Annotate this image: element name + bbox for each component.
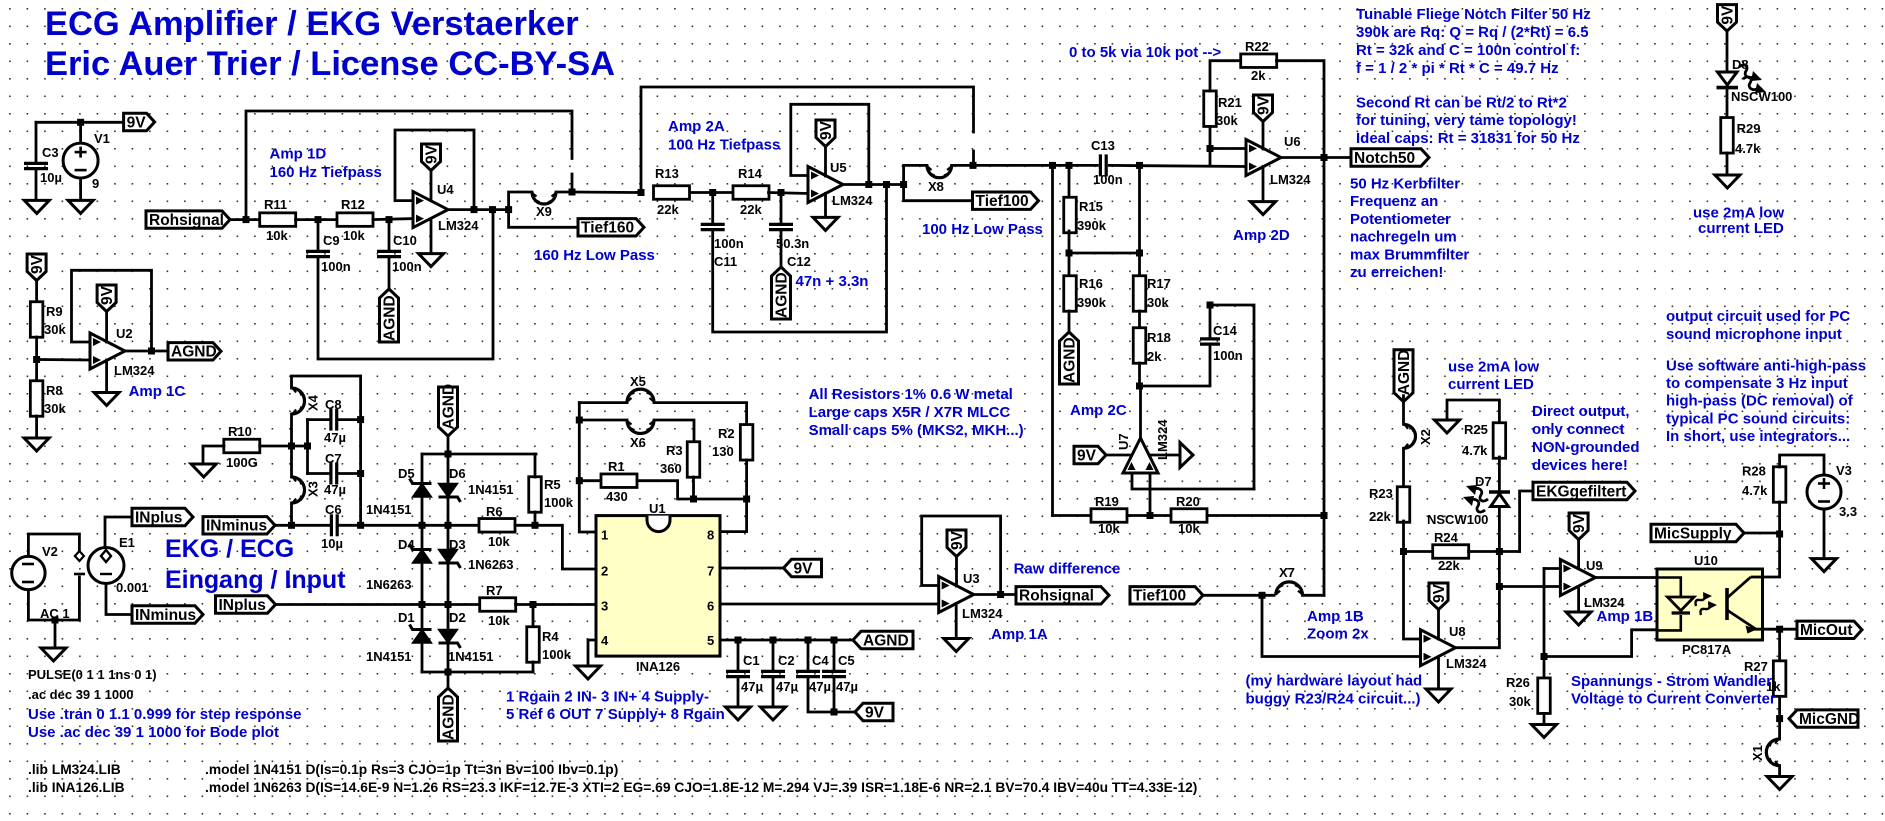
- wire C12 to AGND: [780, 230, 783, 267]
- diode D3 1N6263: [439, 550, 458, 564]
- wire 9V to U6: [1262, 122, 1265, 150]
- svg-text:50 Hz Kerbfilter: 50 Hz Kerbfilter: [1350, 176, 1460, 193]
- svg-text:AGND: AGND: [1061, 337, 1078, 383]
- svg-text:INminus: INminus: [135, 607, 196, 624]
- junction U4 feedback: [471, 206, 478, 213]
- svg-text:Spannungs - Strom Wandler: Spannungs - Strom Wandler: [1571, 673, 1772, 690]
- svg-text:Eric Auer Trier / License CC-B: Eric Auer Trier / License CC-BY-SA: [45, 45, 615, 83]
- svg-text:9V: 9V: [865, 704, 885, 721]
- svg-text:.lib LM324.LIB: .lib LM324.LIB: [28, 762, 121, 777]
- resistor R2: [740, 425, 753, 461]
- svg-text:100n: 100n: [392, 259, 422, 274]
- svg-text:10k: 10k: [1098, 521, 1120, 536]
- wire C8 row right: [339, 418, 361, 421]
- junction C12 top: [778, 189, 785, 196]
- wire V1 top stub: [79, 122, 82, 144]
- svg-text:30k: 30k: [44, 322, 66, 337]
- connector X1: [1766, 739, 1779, 766]
- node INplus row tag: [216, 596, 276, 613]
- junction pin1 rail X6: [576, 417, 583, 424]
- wire C7 row left: [308, 472, 330, 475]
- E1 control plus mark: [75, 551, 84, 561]
- wire U6 ground stub: [1262, 167, 1265, 202]
- wire U4 feedback box: [395, 130, 474, 210]
- svg-text:R6: R6: [486, 504, 503, 519]
- svg-text:R4: R4: [542, 629, 559, 644]
- svg-text:9V: 9V: [127, 114, 147, 131]
- resistor R26: [1538, 678, 1551, 714]
- wire C11 top: [711, 193, 714, 225]
- wire E1 control minus to rail: [28, 577, 79, 620]
- resistor R12: [337, 213, 373, 227]
- junction INminus right rail: [357, 522, 364, 529]
- wire pin7 to 9V: [720, 567, 792, 570]
- svg-text:Voltage to Current Converter: Voltage to Current Converter: [1571, 691, 1776, 708]
- ground U8: [1426, 689, 1451, 702]
- wire pin8: [720, 499, 747, 532]
- svg-text:Amp 1C: Amp 1C: [129, 383, 186, 400]
- junction U6 minus node: [1207, 145, 1214, 152]
- svg-text:AGND: AGND: [1396, 350, 1413, 396]
- svg-text:1N4151: 1N4151: [448, 649, 494, 664]
- wire R1 to bottom node: [637, 481, 747, 499]
- svg-text:2k: 2k: [1147, 349, 1162, 364]
- svg-text:R7: R7: [486, 583, 503, 598]
- junction C4: [805, 637, 812, 644]
- wire U4 ground stub: [430, 219, 433, 254]
- svg-text:Ideal caps: Rt = 31831 for 50: Ideal caps: Rt = 31831 for 50 Hz: [1356, 130, 1580, 147]
- node 9V tag above U5: [816, 120, 835, 147]
- junction U5 feedback: [865, 181, 872, 188]
- wire notch left rail: [1051, 165, 1054, 515]
- node 9V tag below caps: [855, 703, 893, 720]
- resistor R3: [687, 442, 700, 478]
- junction left col INminus: [419, 522, 426, 529]
- svg-text:1: 1: [601, 528, 608, 543]
- diode D6 1N4151: [439, 484, 458, 498]
- svg-text:Rohsignal: Rohsignal: [1019, 588, 1094, 605]
- svg-text:R5: R5: [544, 477, 561, 492]
- resistor R22: [1241, 54, 1277, 67]
- svg-text:high-pass (DC removal) of: high-pass (DC removal) of: [1666, 393, 1854, 410]
- svg-text:10k: 10k: [343, 228, 365, 243]
- svg-text:PULSE(0 1 1 1ns 0 1): PULSE(0 1 1 1ns 0 1): [28, 667, 157, 682]
- svg-text:LM324: LM324: [1155, 419, 1170, 460]
- junction R11 input: [243, 216, 250, 223]
- svg-text:V3: V3: [1836, 463, 1852, 478]
- svg-text:Tunable Fliege Notch Filter 50: Tunable Fliege Notch Filter 50 Hz: [1356, 6, 1591, 23]
- wire X4 rail top: [292, 376, 361, 388]
- svg-text:2: 2: [601, 564, 608, 579]
- wire U5 ground stub: [824, 194, 827, 218]
- resistor R16: [1064, 276, 1077, 312]
- wire R19-R20: [1127, 514, 1171, 517]
- svg-text:EKGgefiltert: EKGgefiltert: [1536, 483, 1626, 500]
- ground C2: [761, 707, 786, 720]
- junction C2: [770, 637, 777, 644]
- junction R17 top: [1136, 162, 1143, 169]
- wire INminus to X3 rail: [276, 524, 330, 527]
- connector X8: [927, 165, 952, 177]
- wire U2 output: [124, 350, 169, 353]
- wire 9V to R9: [35, 281, 38, 303]
- junction U7 plus row: [1147, 512, 1154, 519]
- ground U2: [94, 393, 119, 406]
- svg-text:9V: 9V: [1719, 5, 1736, 25]
- wire R6 to pin2 jog: [515, 525, 596, 569]
- resistor R17: [1133, 276, 1146, 312]
- wire C14 top: [1209, 305, 1212, 338]
- wire R12 to U4 plus input: [373, 219, 413, 220]
- ground U4: [419, 254, 444, 267]
- svg-text:only connect: only connect: [1532, 421, 1625, 438]
- svg-text:All Resistors 1% 0.6 W metal: All Resistors 1% 0.6 W metal: [809, 386, 1013, 403]
- connector X3: [292, 477, 305, 503]
- node INminus tag from E1: [132, 606, 203, 623]
- svg-text:In short, use integrators...: In short, use integrators...: [1666, 428, 1850, 445]
- svg-text:INA126: INA126: [636, 659, 680, 674]
- svg-text:V2: V2: [42, 544, 58, 559]
- junction C10 top: [386, 216, 393, 223]
- wire U2 feedback box: [72, 270, 152, 351]
- node 9V tag top left: [27, 254, 46, 281]
- wire C5 top: [833, 640, 836, 671]
- node Rohsignal output tag: [1016, 587, 1109, 604]
- connector X6: [627, 420, 654, 434]
- node 9V tag above U3: [947, 530, 966, 557]
- svg-text:AGND: AGND: [440, 694, 457, 740]
- svg-text:R12: R12: [341, 197, 365, 212]
- svg-text:R24: R24: [1434, 530, 1459, 545]
- wire R23 to R24 node: [1402, 521, 1405, 552]
- svg-text:R29: R29: [1737, 121, 1761, 136]
- wire C1 bottom: [737, 677, 740, 707]
- wire R26 top: [1543, 657, 1546, 679]
- svg-text:zu erreichen!: zu erreichen!: [1350, 264, 1443, 281]
- wire C2 bottom: [772, 677, 775, 707]
- junction R7-R4: [530, 601, 537, 608]
- svg-text:.ac dec 39 1 1000: .ac dec 39 1 1000: [28, 687, 134, 702]
- junction C5: [831, 637, 838, 644]
- ground R25 bracket: [1435, 420, 1460, 433]
- wire X9 right: [556, 191, 572, 194]
- wire R17 rail: [1138, 165, 1141, 275]
- wire D1 to bottom rail: [421, 643, 424, 672]
- svg-text:390k: 390k: [1077, 295, 1107, 310]
- wire R15 bottom to row: [1068, 231, 1071, 276]
- svg-text:X1: X1: [1750, 745, 1765, 761]
- junction R16 top: [1066, 250, 1073, 257]
- junction R9-R8 divider: [33, 356, 40, 363]
- svg-text:100n: 100n: [1093, 172, 1123, 187]
- junction U2 output: [148, 348, 155, 355]
- wire X9 bump left: [509, 192, 532, 210]
- svg-text:22k: 22k: [740, 202, 762, 217]
- svg-text:D8: D8: [1732, 57, 1749, 72]
- node Tief100 input tag: [1130, 587, 1203, 604]
- wire X8 open stub: [972, 151, 975, 165]
- resistor R18: [1133, 328, 1146, 364]
- node AGND tag below C12: [772, 267, 791, 319]
- svg-text:D4: D4: [398, 537, 415, 552]
- wire R22 loop right: [1277, 61, 1325, 158]
- svg-text:5 Ref 6 OUT 7 Supply+ 8 Rgain: 5 Ref 6 OUT 7 Supply+ 8 Rgain: [506, 706, 725, 723]
- wire C6 to diodes: [339, 524, 422, 527]
- svg-text:1N6263: 1N6263: [468, 557, 514, 572]
- svg-text:8: 8: [707, 528, 714, 543]
- svg-text:C1: C1: [743, 653, 760, 668]
- svg-text:R10: R10: [228, 424, 252, 439]
- svg-text:Small caps 5% (MKS2, MKH...): Small caps 5% (MKS2, MKH...): [809, 422, 1024, 439]
- wire C7 row right: [339, 472, 361, 475]
- wire R13-R14: [690, 191, 733, 194]
- wire D4 to INplus row: [421, 563, 424, 605]
- wire Tief100 drop: [904, 185, 973, 201]
- svg-text:0.001: 0.001: [116, 580, 149, 595]
- svg-text:47µ: 47µ: [836, 679, 858, 694]
- source E1: [88, 548, 124, 584]
- junction C1: [735, 637, 742, 644]
- svg-text:390k are Rq: Q = Rq / (2*Rt) =: 390k are Rq: Q = Rq / (2*Rt) = 6.5: [1356, 24, 1589, 41]
- ground V3: [1812, 559, 1837, 572]
- svg-text:7: 7: [707, 564, 714, 579]
- resistor R25: [1493, 423, 1506, 459]
- svg-text:AGND: AGND: [381, 295, 398, 341]
- svg-text:R15: R15: [1079, 199, 1103, 214]
- svg-text:47µ: 47µ: [324, 482, 346, 497]
- ground U6: [1251, 202, 1276, 215]
- resistor R4: [527, 627, 540, 663]
- wire ground stub V2: [54, 620, 57, 648]
- svg-text:ECG Amplifier / EKG Verstaerke: ECG Amplifier / EKG Verstaerker: [45, 5, 579, 43]
- svg-text:X9: X9: [536, 204, 552, 219]
- svg-text:C5: C5: [838, 653, 855, 668]
- svg-text:Use .tran 0 1.1 0.999 for step: Use .tran 0 1.1 0.999 for step response: [28, 706, 301, 723]
- svg-text:current LED: current LED: [1448, 376, 1534, 393]
- svg-text:R18: R18: [1147, 330, 1171, 345]
- connector X7: [1276, 582, 1303, 595]
- svg-text:100k: 100k: [542, 647, 572, 662]
- wire right rail X4 area: [359, 376, 362, 525]
- svg-text:22k: 22k: [1369, 509, 1391, 524]
- svg-text:Eingang / Input: Eingang / Input: [165, 566, 346, 594]
- wire C8-C7 left rail: [306, 420, 309, 474]
- wire U8 output up: [1456, 587, 1499, 648]
- wire R15 top: [1068, 165, 1071, 197]
- svg-text:D5: D5: [398, 466, 415, 481]
- svg-text:9V: 9V: [1077, 447, 1097, 464]
- wire U7 plus stub: [1149, 473, 1152, 516]
- svg-text:NSCW100: NSCW100: [1731, 89, 1792, 104]
- ground D8 chain: [1715, 175, 1740, 188]
- U10 internal LED: [1657, 578, 1681, 631]
- wire to U9 plus: [1499, 585, 1560, 588]
- capacitor C8: [331, 409, 337, 431]
- wire U10 collector to rail: [1763, 535, 1780, 577]
- wire C3 top: [35, 122, 38, 163]
- svg-text:R26: R26: [1506, 675, 1530, 690]
- svg-text:.model 1N4151 D(Is=0.1p Rs=3: .model 1N4151 D(Is=0.1p Rs=3 CJO=1p Tt=3…: [205, 762, 618, 777]
- junction V2 ground: [52, 617, 59, 624]
- diode D8 LED NSCW100: [1718, 72, 1738, 85]
- svg-text:NON-grounded: NON-grounded: [1532, 439, 1639, 456]
- junction R23-R24: [1400, 548, 1407, 555]
- svg-text:current LED: current LED: [1698, 220, 1784, 237]
- svg-text:Frequenz an: Frequenz an: [1350, 193, 1438, 210]
- wire C14 bottom loop: [1140, 346, 1211, 386]
- junction C9 top: [315, 216, 322, 223]
- svg-text:4.7k: 4.7k: [1735, 141, 1761, 156]
- wire C13 right: [1109, 165, 1246, 166]
- wire C9 top: [317, 220, 320, 251]
- resistor R9: [30, 302, 42, 338]
- svg-text:C10: C10: [393, 233, 417, 248]
- junction U8 out-U9 plus: [1496, 583, 1503, 590]
- wire R28 bottom: [1778, 502, 1781, 535]
- wire R22 loop left: [1210, 61, 1241, 91]
- wire AGND to X2: [1402, 396, 1405, 425]
- wire D6 to INminus row: [447, 497, 450, 525]
- svg-text:U10: U10: [1694, 553, 1718, 568]
- svg-text:0 to 5k via 10k pot -->: 0 to 5k via 10k pot -->: [1069, 44, 1221, 61]
- junction MicOut: [1776, 626, 1783, 633]
- wire 9V to U9: [1577, 540, 1580, 569]
- wire U5 output: [843, 183, 904, 186]
- svg-text:R2: R2: [718, 426, 735, 441]
- junction U6 output: [1321, 154, 1328, 161]
- voltage source V1: [63, 143, 98, 178]
- svg-text:R22: R22: [1245, 39, 1269, 54]
- wire C4 bottom to 9V row: [808, 677, 863, 712]
- junction U3 output: [997, 591, 1004, 598]
- svg-text:typical PC sound circuits:: typical PC sound circuits:: [1666, 410, 1850, 427]
- wire R19 R20 row: [1053, 514, 1092, 517]
- svg-text:10k: 10k: [488, 613, 510, 628]
- junction C7 right: [357, 470, 364, 477]
- node EKGgefiltert tag: [1533, 482, 1635, 499]
- svg-text:devices here!: devices here!: [1532, 457, 1628, 474]
- wire R27 bottom: [1778, 697, 1781, 739]
- wire E1 plus to INplus: [105, 517, 132, 548]
- wire X4-X3 rail: [290, 414, 293, 477]
- svg-text:X8: X8: [928, 179, 944, 194]
- op-amp U5: [808, 167, 843, 203]
- node 9V tag above U9: [1569, 513, 1588, 540]
- wire X6 row left: [579, 419, 627, 422]
- wire R26 bottom: [1543, 714, 1546, 725]
- resistor R23: [1397, 487, 1410, 523]
- resistor R19: [1091, 509, 1127, 523]
- wire U8 minus: [1404, 552, 1421, 640]
- svg-text:C3: C3: [42, 145, 59, 160]
- svg-text:1N6263: 1N6263: [366, 577, 412, 592]
- node Tief100 output tag: [973, 192, 1039, 209]
- wire C14 to right rail: [1210, 305, 1254, 489]
- wire R8 to ground: [35, 416, 38, 438]
- wire main row to C13: [1053, 164, 1098, 167]
- svg-text:Amp 2C: Amp 2C: [1070, 402, 1127, 419]
- wire R24 right: [1469, 550, 1500, 553]
- resistor R10: [224, 439, 260, 453]
- wire U7 output: [1139, 386, 1142, 438]
- svg-text:Amp 1D: Amp 1D: [270, 146, 327, 163]
- wire R9 to R8: [35, 337, 38, 381]
- svg-text:30k: 30k: [44, 401, 66, 416]
- wire V2 plus to E1 control: [28, 534, 79, 557]
- svg-text:100G: 100G: [226, 455, 258, 470]
- svg-text:47µ: 47µ: [324, 430, 346, 445]
- svg-text:C9: C9: [323, 233, 340, 248]
- svg-text:MicOut: MicOut: [1800, 622, 1853, 639]
- wire D7 to node: [1498, 507, 1501, 552]
- svg-text:3: 3: [601, 599, 608, 614]
- svg-text:U9: U9: [1586, 558, 1603, 573]
- wire 9V to U3: [955, 557, 958, 587]
- svg-text:Tief160: Tief160: [581, 220, 634, 237]
- junction X9 feedback node: [569, 189, 576, 196]
- wire V3 bottom: [1823, 509, 1826, 559]
- svg-text:R9: R9: [46, 304, 63, 319]
- svg-text:1N4151: 1N4151: [468, 482, 514, 497]
- svg-text:360: 360: [660, 461, 682, 476]
- svg-text:R27: R27: [1744, 659, 1768, 674]
- wire U2 ground stub: [105, 360, 108, 393]
- svg-text:INplus: INplus: [135, 509, 182, 526]
- svg-text:f = 1 / 2 * pi * Rt * C = 49.7: f = 1 / 2 * pi * Rt * C = 49.7 Hz: [1356, 60, 1559, 77]
- node Notch50 tag: [1351, 149, 1429, 166]
- IC U1 INA126 body: [596, 516, 720, 657]
- node AGND tag below diodes: [439, 688, 458, 741]
- wire C9 bottom loop to U4 output: [318, 210, 493, 359]
- svg-text:9V: 9V: [818, 120, 835, 140]
- svg-text:130: 130: [712, 444, 734, 459]
- resistor R7: [480, 598, 516, 612]
- connector X4: [292, 388, 305, 414]
- wire X5 row right: [654, 403, 747, 425]
- wire 9V to U8: [1437, 610, 1440, 640]
- resistor R6: [479, 519, 515, 533]
- svg-text:AGND: AGND: [773, 272, 790, 318]
- svg-text:C11: C11: [714, 254, 737, 269]
- svg-text:Rohsignal: Rohsignal: [149, 212, 224, 229]
- svg-text:U3: U3: [963, 571, 980, 586]
- svg-text:430: 430: [606, 489, 628, 504]
- junction right col INplus: [445, 601, 452, 608]
- capacitor C2: [761, 671, 785, 676]
- svg-text:D3: D3: [449, 537, 466, 552]
- junction X8 feedback: [970, 162, 977, 169]
- node 9V tag pin7: [784, 559, 822, 576]
- wire U5 feedback box: [791, 104, 869, 184]
- wire D3 to INplus row: [447, 563, 450, 605]
- capacitor C14: [1200, 339, 1220, 344]
- junction R15 top: [1066, 162, 1073, 169]
- svg-text:9V: 9V: [99, 285, 116, 305]
- junction right col INminus: [445, 522, 452, 529]
- wire X9 open stub: [571, 174, 574, 192]
- node AGND output tag: [168, 343, 221, 360]
- junction R13 input: [638, 189, 645, 196]
- svg-text:9V: 9V: [1255, 95, 1272, 115]
- svg-text:10k: 10k: [488, 534, 510, 549]
- wire X5 row left: [579, 401, 627, 404]
- junction C8 right: [357, 416, 364, 423]
- svg-text:(my hardware layout had: (my hardware layout had: [1246, 673, 1423, 690]
- ground pin4: [576, 666, 601, 679]
- op-amp U9: [1560, 560, 1595, 596]
- wire U3 feedback box: [922, 516, 1001, 595]
- ground V2: [41, 648, 66, 661]
